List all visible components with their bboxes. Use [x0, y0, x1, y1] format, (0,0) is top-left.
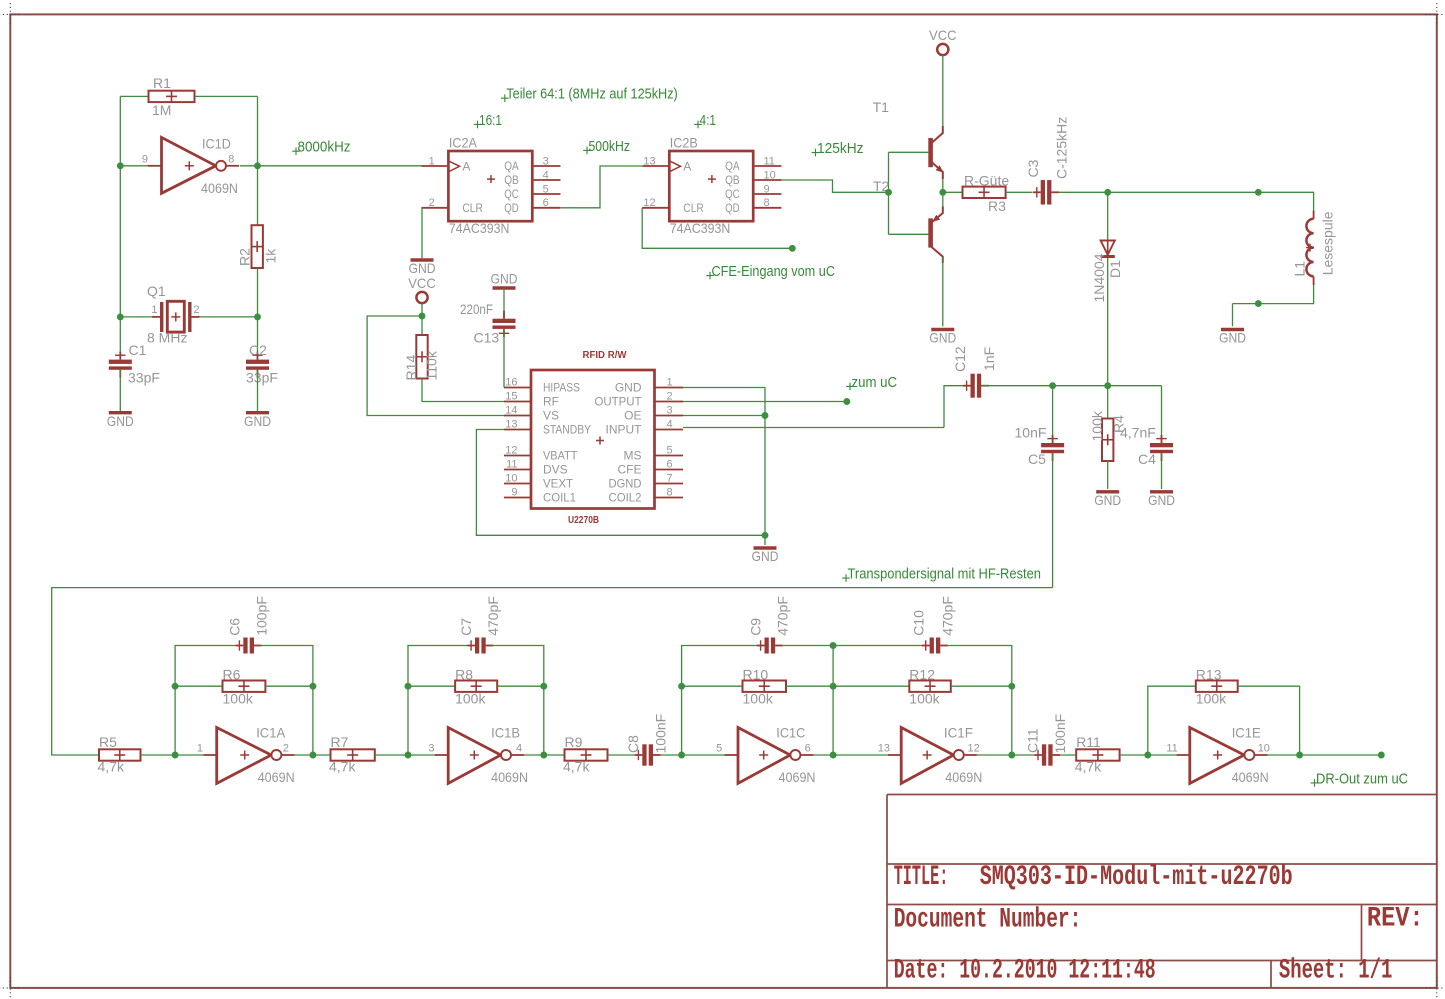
resistor R1 — [149, 91, 195, 102]
svg-text:4,7k: 4,7k — [329, 759, 356, 775]
wire R4 bottom to ground — [1107, 461, 1109, 489]
svg-text:QD: QD — [504, 201, 519, 215]
junction R8 right — [540, 683, 547, 690]
svg-text:100k: 100k — [455, 691, 486, 707]
wire R7 to IC1B input — [375, 754, 435, 756]
wire C1 to ground — [119, 370, 121, 411]
svg-text:RF: RF — [543, 395, 559, 409]
junction IC1E input — [1144, 752, 1151, 759]
ground above C13 — [491, 270, 518, 288]
svg-text:QB: QB — [504, 173, 519, 187]
svg-text:8 MHz: 8 MHz — [147, 330, 187, 346]
svg-text:R12: R12 — [909, 667, 935, 683]
wire left vertical to IC1D input — [119, 96, 121, 165]
svg-text:GND: GND — [107, 413, 134, 429]
wire IC1C output to junction — [813, 754, 833, 756]
svg-text:IC2B: IC2B — [670, 135, 698, 151]
wire IC1E output to uC — [1300, 754, 1381, 756]
capacitor C13 — [493, 311, 516, 337]
wire to T1 base — [889, 151, 929, 153]
wire feedback left IC1E — [1148, 686, 1196, 755]
svg-text:C9: C9 — [748, 618, 764, 636]
svg-text:Document Number:: Document Number: — [894, 905, 1082, 936]
svg-text:IC1B: IC1B — [491, 725, 520, 741]
svg-text:C8: C8 — [625, 735, 641, 753]
wire to C1 top — [119, 317, 121, 360]
svg-text:VEXT: VEXT — [543, 477, 574, 491]
svg-text:100k: 100k — [1089, 410, 1105, 441]
svg-text:REV:: REV: — [1367, 904, 1424, 935]
svg-text:VBATT: VBATT — [543, 449, 578, 463]
svg-text:4,7k: 4,7k — [563, 759, 590, 775]
svg-text:4:1: 4:1 — [700, 112, 717, 129]
svg-text:R7: R7 — [331, 734, 349, 750]
svg-text:470pF: 470pF — [485, 596, 501, 636]
capacitor C9 — [757, 638, 783, 654]
svg-text:R11: R11 — [1076, 734, 1101, 750]
crystal Q1 8 MHz — [152, 301, 200, 332]
svg-text:8: 8 — [764, 197, 770, 209]
wire INPUT riser to C12 — [944, 386, 969, 428]
wire to R8 left — [408, 685, 455, 687]
svg-text:3: 3 — [543, 155, 549, 167]
resistor R2 — [252, 225, 263, 268]
junction VCC/VS node — [419, 313, 426, 320]
junction OE/GND rail — [762, 412, 769, 419]
svg-text:470pF: 470pF — [775, 596, 791, 636]
wire R6 right — [265, 685, 313, 687]
svg-text:5: 5 — [716, 743, 722, 755]
corner registration mark top-right — [1426, 3, 1445, 25]
svg-text:4069N: 4069N — [201, 180, 238, 196]
svg-text:MS: MS — [624, 449, 642, 463]
svg-text:QA: QA — [725, 159, 740, 173]
inverter IC1B — [428, 725, 528, 786]
inverter IC1A — [197, 725, 295, 786]
IC U1 U2270B RFID R/W — [504, 349, 683, 526]
svg-text:GND: GND — [752, 548, 779, 564]
svg-text:5: 5 — [667, 445, 673, 457]
power VCC R14 — [408, 275, 436, 303]
junction R10 left — [678, 683, 685, 690]
svg-text:2: 2 — [667, 391, 673, 403]
capacitor C12 — [963, 374, 989, 398]
wire to ground below L1 — [1232, 304, 1234, 327]
resistor R10 — [743, 681, 787, 692]
capacitor C2 — [246, 352, 269, 378]
junction detector C5 tap — [1049, 382, 1056, 389]
svg-text:13: 13 — [505, 419, 517, 431]
wire IC1C output to IC1F input — [833, 754, 887, 756]
wire output node to R3 — [943, 191, 963, 193]
wire to T2 base — [889, 233, 929, 235]
svg-text:7: 7 — [667, 473, 673, 485]
capacitor C6 — [236, 638, 262, 654]
svg-text:QA: QA — [504, 159, 519, 173]
wire pin 4 INPUT — [683, 427, 944, 429]
svg-text:CFE-Eingang vom uC: CFE-Eingang vom uC — [712, 263, 836, 280]
wire R14 bottom to RF pin 15 — [422, 379, 504, 402]
wire pin 2 OUTPUT to uC — [683, 401, 847, 403]
svg-text:R-Güte: R-Güte — [964, 173, 1009, 189]
net label 16:1 — [474, 112, 502, 129]
net end dot zum uC — [843, 398, 850, 405]
svg-text:4069N: 4069N — [1232, 769, 1269, 785]
svg-text:5: 5 — [543, 183, 549, 195]
wire D1 cathode to detector net — [1107, 258, 1109, 386]
svg-text:14: 14 — [505, 405, 517, 417]
svg-text:13: 13 — [878, 743, 890, 755]
svg-text:6: 6 — [805, 743, 811, 755]
svg-text:QB: QB — [725, 173, 740, 187]
svg-text:IC1E: IC1E — [1232, 725, 1261, 741]
svg-text:1k: 1k — [263, 248, 279, 264]
wire L1 bottom to ground branch — [1233, 285, 1314, 304]
wire IC1F output to C11 — [1012, 754, 1034, 756]
svg-text:A: A — [462, 160, 470, 174]
wire C8 to IC1C input — [661, 754, 682, 756]
svg-text:VS: VS — [543, 409, 559, 423]
junction tank/D1 node — [1104, 189, 1111, 196]
net label 125kHz — [812, 140, 864, 157]
wire 500kHz IC2A QD to IC2B A — [561, 166, 643, 208]
svg-text:C11: C11 — [1025, 728, 1041, 753]
svg-text:HIPASS: HIPASS — [543, 381, 580, 395]
svg-text:4069N: 4069N — [491, 769, 528, 785]
svg-text:QD: QD — [725, 201, 740, 215]
ground below R4 — [1094, 492, 1121, 508]
ground below C2 — [244, 413, 271, 429]
svg-text:100nF: 100nF — [653, 714, 669, 754]
wire IC1B output to junction — [524, 754, 544, 756]
resistor R9 — [565, 749, 608, 760]
svg-text:CFE: CFE — [618, 463, 642, 477]
svg-text:1: 1 — [429, 155, 435, 167]
ground below U2270B — [752, 548, 779, 564]
wire to R2 top — [257, 166, 259, 225]
net label DR-Out zum uC — [1311, 770, 1408, 787]
resistor R3 R-Guete — [963, 187, 1006, 198]
svg-text:R14: R14 — [403, 355, 419, 381]
resistor R8 — [455, 681, 497, 692]
junction tank wire joint — [1255, 189, 1262, 196]
svg-text:GND: GND — [1094, 492, 1121, 508]
ground below C4 — [1148, 492, 1175, 508]
capacitor C11 — [1034, 744, 1060, 765]
junction IC1A output — [309, 752, 316, 759]
svg-text:4: 4 — [543, 169, 549, 181]
svg-text:100k: 100k — [743, 691, 774, 707]
junction R8 left — [405, 683, 412, 690]
wire R11 to IC1E input — [1120, 754, 1176, 756]
svg-text:DVS: DVS — [543, 463, 568, 477]
inverter IC1F — [878, 725, 983, 786]
svg-text:1M: 1M — [152, 102, 171, 118]
svg-text:C12: C12 — [952, 346, 968, 372]
svg-text:C2: C2 — [249, 342, 267, 358]
corner registration mark bottom-left — [0, 977, 21, 998]
wire VCC to R14 top — [421, 303, 423, 335]
svg-text:C-125kHz: C-125kHz — [1054, 117, 1070, 179]
svg-text:2: 2 — [429, 197, 435, 209]
svg-text:D1: D1 — [1107, 260, 1123, 278]
svg-text:100k: 100k — [909, 691, 940, 707]
junction IC1D input node — [117, 162, 124, 169]
svg-text:220nF: 220nF — [460, 301, 493, 317]
counter IC2B 74AC393N — [642, 135, 781, 237]
wire 8000kHz net to IC2A pin 1 — [240, 165, 422, 167]
wire IC1A output to R7 — [313, 754, 331, 756]
svg-text:16: 16 — [505, 377, 517, 389]
svg-text:33pF: 33pF — [128, 370, 160, 386]
svg-text:4,7k: 4,7k — [98, 759, 125, 775]
svg-text:CLR: CLR — [462, 201, 483, 215]
svg-text:4069N: 4069N — [945, 769, 982, 785]
resistor R12 — [909, 681, 951, 692]
svg-text:QC: QC — [504, 187, 519, 201]
wire detector net C12 to C4 branch — [983, 385, 1162, 387]
net label zum uC — [846, 374, 897, 391]
svg-text:R2: R2 — [237, 248, 253, 266]
svg-text:11: 11 — [506, 459, 517, 471]
svg-text:Lesespule: Lesespule — [1320, 211, 1336, 275]
junction IC1D output node — [254, 162, 261, 169]
wire R2 bottom to crystal node — [257, 268, 259, 317]
svg-text:4: 4 — [516, 743, 522, 755]
svg-text:4069N: 4069N — [258, 769, 295, 785]
junction IC1A input — [172, 752, 179, 759]
svg-text:IC1C: IC1C — [776, 725, 805, 741]
svg-text:16:1: 16:1 — [479, 112, 502, 129]
junction IC1B output — [540, 752, 547, 759]
wire to C4 top — [1161, 386, 1163, 443]
wire C5 bottom to transponder net — [1052, 453, 1054, 587]
svg-text:9: 9 — [511, 487, 517, 499]
svg-text:12: 12 — [643, 197, 655, 209]
svg-text:6: 6 — [667, 459, 673, 471]
junction IC1C input — [678, 752, 685, 759]
wire R12 right — [951, 685, 1012, 687]
svg-text:A: A — [683, 160, 691, 174]
svg-text:GND: GND — [1219, 330, 1246, 346]
wire crystal pin 2 — [192, 316, 258, 318]
wire to C5 top — [1052, 386, 1054, 443]
svg-text:470pF: 470pF — [940, 596, 956, 636]
net label Transpondersignal mit HF-Resten — [842, 566, 1041, 583]
wire IC1A output to junction — [294, 754, 313, 756]
svg-text:10nF: 10nF — [1015, 425, 1047, 441]
net label 4:1 — [694, 112, 716, 129]
wire to R6 left — [175, 685, 222, 687]
svg-text:VCC: VCC — [929, 27, 957, 43]
svg-text:COIL2: COIL2 — [609, 491, 642, 505]
svg-text:8: 8 — [667, 487, 673, 499]
title block frame — [887, 795, 1437, 988]
wire feedback right IC1F — [947, 646, 1012, 756]
capacitor C7 — [467, 638, 493, 654]
svg-text:C7: C7 — [458, 618, 474, 636]
inductor L1 Lesespule — [1306, 211, 1314, 286]
net label CFE-Eingang vom uC — [706, 263, 835, 280]
wire ground to C13 top — [503, 288, 505, 321]
svg-text:100nF: 100nF — [1052, 714, 1068, 754]
capacitor C3 C-125kHz — [1033, 180, 1059, 205]
svg-text:GND: GND — [491, 270, 518, 286]
counter IC2A 74AC393N — [421, 135, 560, 237]
wire VS loop to pin 14 — [367, 316, 504, 416]
svg-text:DGND: DGND — [609, 477, 642, 491]
svg-text:C1: C1 — [129, 342, 147, 358]
svg-text:STANDBY: STANDBY — [543, 423, 591, 437]
svg-text:110k: 110k — [424, 350, 440, 380]
svg-text:4,7nF: 4,7nF — [1120, 425, 1156, 441]
junction IC1C output — [830, 752, 837, 759]
power VCC driver — [929, 27, 957, 55]
svg-text:OUTPUT: OUTPUT — [595, 395, 643, 409]
svg-text:C13: C13 — [474, 330, 500, 346]
svg-text:11: 11 — [764, 155, 775, 167]
net label 8000kHz — [292, 139, 350, 156]
svg-text:8: 8 — [228, 153, 234, 165]
svg-text:RFID R/W: RFID R/W — [583, 349, 627, 361]
svg-text:3: 3 — [428, 743, 434, 755]
svg-text:100k: 100k — [223, 691, 254, 707]
wire crystal pin 1 — [120, 316, 160, 318]
wire IC1B output to R9 — [544, 754, 565, 756]
junction driver output node — [939, 189, 946, 196]
ground below C1 — [107, 413, 134, 429]
wire IC1F output to junction — [977, 754, 1012, 756]
net label 500kHz — [583, 138, 630, 155]
svg-text:IC1A: IC1A — [256, 725, 286, 741]
svg-text:10: 10 — [505, 473, 517, 485]
svg-text:TITLE:: TITLE: — [894, 862, 949, 893]
junction crystal right node — [254, 313, 261, 320]
wire feedback right IC1A — [260, 646, 313, 756]
capacitor C5 — [1041, 435, 1064, 461]
wire R5 to IC1A input — [141, 754, 204, 756]
ground IC2A CLR — [409, 260, 436, 276]
svg-text:1: 1 — [667, 377, 673, 389]
resistor R14 — [416, 335, 427, 379]
junction R6 left — [172, 683, 179, 690]
corner registration mark bottom-right — [1426, 977, 1445, 998]
svg-text:SMQ303-ID-Modul-mit-u2270b: SMQ303-ID-Modul-mit-u2270b — [980, 862, 1293, 893]
svg-text:C3: C3 — [1025, 159, 1041, 177]
wire R8 right — [497, 685, 544, 687]
junction R12 right — [1008, 683, 1015, 690]
junction IC1F output — [1008, 752, 1015, 759]
svg-text:IC2A: IC2A — [449, 135, 478, 151]
svg-text:CLR: CLR — [683, 201, 704, 215]
junction L1 bottom wire joint — [1255, 300, 1262, 307]
svg-text:QC: QC — [725, 187, 740, 201]
svg-text:IC1D: IC1D — [202, 136, 231, 152]
ground below driver — [929, 330, 956, 346]
svg-text:100pF: 100pF — [253, 596, 269, 636]
svg-text:U2270B: U2270B — [568, 514, 599, 526]
wire to R12 left — [833, 685, 909, 687]
wire C13 bottom to HIPASS — [503, 329, 505, 388]
svg-text:2: 2 — [194, 304, 200, 316]
svg-text:IC1F: IC1F — [944, 725, 973, 741]
wire feedback right IC1E — [1238, 686, 1300, 755]
wire to R10 left — [682, 685, 743, 687]
wire C4 bottom to ground — [1161, 453, 1163, 489]
svg-text:R1: R1 — [153, 75, 171, 91]
ground below L1 — [1219, 330, 1246, 346]
junction IC1E output — [1296, 752, 1303, 759]
wire IC2B CLR to CFE input — [642, 208, 792, 249]
svg-text:13: 13 — [643, 155, 655, 167]
svg-text:Transpondersignal mit HF-Reste: Transpondersignal mit HF-Resten — [848, 566, 1042, 583]
wire left vertical to crystal node — [119, 166, 121, 317]
svg-text:INPUT: INPUT — [606, 423, 643, 437]
svg-text:8000kHz: 8000kHz — [298, 139, 351, 156]
wire transponder signal to filter input — [52, 588, 1053, 755]
svg-text:Q1: Q1 — [147, 283, 166, 299]
inverter IC1C — [716, 725, 815, 786]
wire R3 to C3 — [1006, 191, 1033, 193]
wire T1 emitter to output node — [942, 179, 944, 213]
svg-text:T1: T1 — [873, 99, 890, 115]
wire feedback right IC1C — [781, 646, 833, 756]
svg-text:74AC393N: 74AC393N — [449, 220, 510, 236]
svg-text:4: 4 — [667, 419, 673, 431]
wire pin 1 GND to ground rail — [683, 388, 765, 546]
resistor R13 — [1196, 681, 1238, 692]
svg-text:L1: L1 — [1292, 261, 1308, 277]
svg-text:6: 6 — [543, 197, 549, 209]
svg-text:12: 12 — [968, 743, 980, 755]
resistor R7 — [331, 749, 375, 760]
wire IC1D input — [120, 165, 148, 167]
net label Teiler 64:1 (8MHz auf 125kHz) — [501, 86, 678, 103]
svg-text:R10: R10 — [743, 667, 769, 683]
svg-text:R3: R3 — [988, 198, 1006, 214]
svg-text:C5: C5 — [1028, 451, 1046, 467]
capacitor C1 — [109, 352, 132, 378]
net end dot CFE — [789, 245, 796, 252]
svg-text:33pF: 33pF — [246, 370, 278, 386]
svg-text:C4: C4 — [1138, 451, 1156, 467]
svg-text:Teiler 64:1 (8MHz auf 125kHz): Teiler 64:1 (8MHz auf 125kHz) — [506, 86, 678, 103]
capacitor C4 — [1150, 435, 1173, 461]
svg-text:GND: GND — [615, 381, 642, 395]
wire feedback left IC1B — [408, 646, 468, 756]
svg-text:1N4004: 1N4004 — [1091, 253, 1107, 302]
wire IC2A CLR to ground — [420, 208, 423, 258]
junction IC1B input — [405, 752, 412, 759]
svg-text:9: 9 — [142, 153, 148, 165]
svg-text:1: 1 — [197, 743, 203, 755]
wire IC1E output to junction — [1267, 754, 1299, 756]
junction STANDBY/GND rail — [762, 532, 769, 539]
svg-text:C6: C6 — [226, 618, 242, 636]
wire feedback left IC1A — [175, 646, 237, 756]
svg-text:4,7k: 4,7k — [1075, 759, 1102, 775]
capacitor C8 — [635, 744, 661, 765]
svg-text:GND: GND — [929, 330, 956, 346]
capacitor C10 — [922, 638, 948, 654]
corner registration mark top-left — [0, 3, 21, 25]
wire VCC to T1 collector — [942, 55, 944, 130]
wire 125kHz IC2B QB to driver bases — [780, 180, 888, 192]
svg-text:Sheet: 1/1: Sheet: 1/1 — [1279, 955, 1392, 986]
svg-text:OE: OE — [624, 409, 641, 423]
svg-text:GND: GND — [1148, 492, 1175, 508]
wire C10 feedback left — [833, 645, 923, 647]
